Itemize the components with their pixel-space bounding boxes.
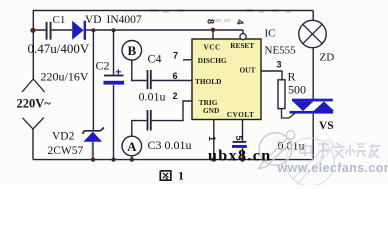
wire: pin 8 stub bbox=[212, 30, 214, 39]
svg-text:ZD: ZD bbox=[320, 52, 335, 64]
AC plug fork lower bbox=[23, 118, 44, 130]
node dot C2 bottom bbox=[111, 157, 115, 161]
node: junction dot left bbox=[30, 28, 35, 33]
wire: zener vertical bbox=[92, 30, 94, 160]
IC pin texts bbox=[195, 41, 255, 119]
svg-text:IC: IC bbox=[265, 28, 276, 40]
svg-text:RESET: RESET bbox=[230, 41, 254, 50]
wire: A down to rail bbox=[131, 156, 133, 160]
zener diode VD2 bbox=[83, 128, 104, 142]
svg-text:6: 6 bbox=[173, 71, 178, 81]
wire: triac to bottom rail bbox=[312, 114, 314, 160]
wire: A up to C3 tap bbox=[132, 121, 147, 137]
svg-text:VD: VD bbox=[85, 14, 102, 26]
triac VS bbox=[290, 99, 335, 114]
capacitor C3 plates bbox=[147, 110, 149, 131]
svg-text:C1: C1 bbox=[53, 14, 66, 26]
svg-text:7: 7 bbox=[173, 51, 178, 61]
svg-text:OUT: OUT bbox=[240, 66, 256, 75]
svg-text:C3 0.01u: C3 0.01u bbox=[148, 138, 192, 152]
capacitor C4 plates bbox=[147, 70, 149, 89]
faint top watermark dashes bbox=[150, 9, 291, 22]
wire: lamp top stub bbox=[312, 11, 314, 21]
svg-text:3: 3 bbox=[277, 60, 282, 70]
svg-text:1: 1 bbox=[207, 136, 217, 141]
svg-text:1: 1 bbox=[178, 169, 184, 183]
svg-text:NE555: NE555 bbox=[265, 45, 297, 57]
svg-text:5: 5 bbox=[234, 135, 244, 140]
node dot pin 8 bbox=[211, 28, 215, 32]
watermark logo pencil-circle 2 bbox=[286, 138, 334, 186]
wire: pin 4 corner bbox=[242, 30, 244, 33]
C2 plus sign bbox=[116, 69, 121, 74]
capacitor C2 (electrolytic) bbox=[104, 75, 124, 77]
子 bbox=[318, 144, 329, 157]
svg-text:C4: C4 bbox=[148, 52, 162, 66]
友 bbox=[369, 143, 380, 158]
svg-text:ubx8.cn: ubx8.cn bbox=[208, 148, 272, 165]
svg-text:GND: GND bbox=[203, 106, 219, 115]
svg-text:C2: C2 bbox=[96, 59, 110, 73]
node dot zener top bbox=[91, 28, 95, 32]
电 bbox=[300, 143, 314, 156]
wire: pin 5 CVOLT down bbox=[242, 120, 244, 160]
node dot pin5 bottom bbox=[240, 157, 244, 161]
svg-text:R: R bbox=[288, 70, 296, 84]
node dot pin1 bottom bbox=[212, 157, 216, 161]
svg-text:8: 8 bbox=[206, 19, 216, 24]
svg-text:220V~: 220V~ bbox=[17, 97, 52, 111]
svg-text:500: 500 bbox=[288, 83, 306, 97]
svg-text:0.01u: 0.01u bbox=[139, 90, 166, 104]
caption 图 1 bbox=[160, 171, 171, 180]
node dot zener bottom bbox=[91, 157, 95, 161]
svg-text:THOLD: THOLD bbox=[195, 77, 221, 86]
svg-text:VCC: VCC bbox=[204, 43, 221, 52]
wire: C4 to THOLD pin 6 bbox=[152, 80, 192, 82]
wire: bottom rail bbox=[33, 159, 313, 161]
wire: C2 vertical bbox=[113, 30, 115, 160]
wire: pin 1 GND down bbox=[213, 120, 215, 160]
wire: top rail bbox=[33, 10, 313, 12]
lamp ZD bbox=[299, 20, 326, 47]
wire: left vertical upper bbox=[32, 11, 34, 80]
watermark logo pencil-circle 1 bbox=[259, 131, 295, 169]
wire: OUT pin 3 bbox=[261, 71, 282, 80]
wire: left vertical lower bbox=[32, 129, 34, 160]
svg-text:B: B bbox=[127, 43, 136, 58]
node dot A bottom bbox=[130, 157, 134, 161]
svg-text:2: 2 bbox=[173, 91, 178, 101]
wire: resistor to triac gate bbox=[282, 109, 296, 118]
watermark hanzi 电子发烧友 bbox=[300, 143, 380, 158]
capacitor C1 plates bbox=[46, 22, 48, 40]
pin 7 stub wire bbox=[183, 59, 192, 61]
svg-text:A: A bbox=[127, 139, 137, 154]
wire: lamp to triac bbox=[312, 48, 314, 99]
node dot C2 top bbox=[111, 28, 115, 32]
diode VD bbox=[72, 21, 83, 40]
svg-text:2CW57: 2CW57 bbox=[48, 145, 84, 157]
svg-text:4: 4 bbox=[235, 19, 245, 24]
AC plug fork upper bbox=[22, 79, 45, 92]
node B circle bbox=[122, 41, 142, 61]
wire: B down to C4 tap bbox=[132, 60, 147, 80]
capacitor C5 on pin 5 bbox=[233, 141, 247, 143]
svg-text:VS: VS bbox=[319, 120, 334, 132]
op: IC NE555 body U1 bbox=[192, 39, 261, 120]
svg-text:www.elecfans.com: www.elecfans.com bbox=[277, 161, 388, 175]
svg-text:VD2: VD2 bbox=[52, 131, 75, 143]
svg-text:0.47u/400V: 0.47u/400V bbox=[28, 41, 90, 56]
svg-text:220u/16V: 220u/16V bbox=[41, 70, 89, 84]
svg-text:DISCHG: DISCHG bbox=[198, 56, 227, 65]
svg-text:CVOLT: CVOLT bbox=[227, 110, 255, 119]
svg-text:IN4007: IN4007 bbox=[107, 14, 142, 26]
node A circle bbox=[122, 136, 142, 156]
resistor R body bbox=[278, 80, 285, 109]
greenish artifact line bbox=[91, 142, 92, 159]
pin 4 reset bubble bbox=[240, 34, 246, 40]
wire: main horizontal y30 bbox=[33, 29, 243, 31]
烧 bbox=[346, 144, 366, 157]
发 bbox=[333, 143, 345, 158]
wire: C3 to TRIG pin 2 bbox=[152, 101, 192, 121]
